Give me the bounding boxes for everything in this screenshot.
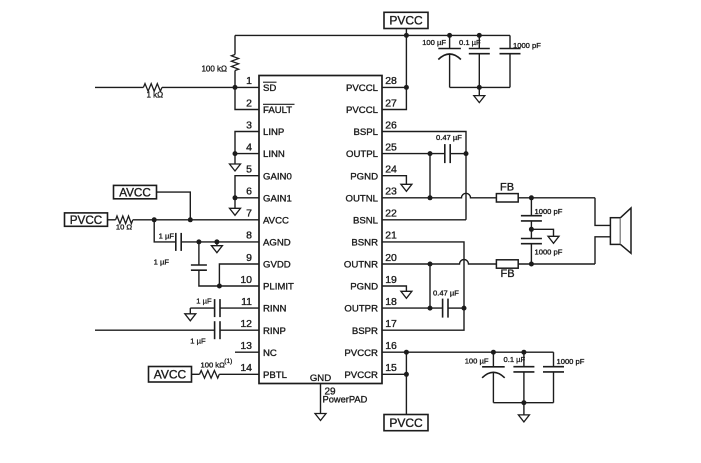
- svg-text:PGND: PGND: [350, 171, 378, 182]
- svg-text:100 µF: 100 µF: [465, 357, 489, 366]
- pin 13 NC stub wire: [235, 351, 259, 353]
- svg-text:PVCCL: PVCCL: [346, 83, 379, 94]
- node dot OUTPL/OUT tie: [428, 151, 433, 156]
- svg-text:BSNL: BSNL: [353, 215, 379, 226]
- capacitor C9 0.47 µF (bootstrap R): [442, 299, 444, 318]
- svg-text:22: 22: [385, 208, 397, 220]
- svg-text:FAULT: FAULT: [263, 105, 292, 116]
- capacitor C14 1000 pF (bottom): [553, 352, 555, 367]
- svg-text:20: 20: [385, 252, 397, 264]
- wire snubber mid to ground: [531, 229, 553, 236]
- node dot output node R: [529, 262, 534, 267]
- svg-text:0.47 µF: 0.47 µF: [436, 133, 462, 142]
- svg-text:24: 24: [385, 164, 397, 176]
- ground snubber: [548, 236, 559, 243]
- wire GAIN0 bracket: [235, 176, 259, 198]
- svg-text:PVCCL: PVCCL: [346, 105, 379, 116]
- svg-text:1000 pF: 1000 pF: [513, 41, 541, 50]
- svg-text:26: 26: [385, 119, 397, 131]
- node dot OUTNR/OUT tie B: [428, 262, 433, 267]
- capacitor C1 100 µF (top): [449, 35, 451, 48]
- speaker LS1 body: [610, 218, 620, 245]
- node dot C2 top: [477, 33, 482, 38]
- node dot SD junction: [233, 85, 238, 90]
- svg-text:23: 23: [385, 186, 397, 198]
- node dot LINN: [233, 151, 238, 156]
- svg-text:FB: FB: [500, 182, 514, 194]
- svg-text:AVCC: AVCC: [154, 368, 187, 382]
- svg-text:0.1 µF: 0.1 µF: [504, 355, 526, 364]
- svg-text:1 kΩ: 1 kΩ: [147, 91, 164, 100]
- node dot top rail / PVCC: [404, 33, 409, 38]
- capacitor C13 0.1 µF (bottom): [523, 352, 525, 367]
- node dot AVCC junction: [188, 217, 193, 222]
- PVCC supply box (top): [384, 12, 428, 28]
- PVCC supply box (bottom): [384, 415, 428, 431]
- ground bottom bank: [523, 403, 525, 415]
- top bank bottom wire: [450, 86, 510, 88]
- svg-text:13: 13: [240, 340, 252, 352]
- node dot C13 top: [521, 350, 526, 355]
- svg-text:6: 6: [246, 186, 252, 198]
- capacitor C12 100 µF (bottom): [492, 352, 494, 367]
- svg-text:AVCC: AVCC: [263, 215, 289, 226]
- ground top bank: [478, 87, 480, 95]
- pin 29 stub wire: [320, 384, 322, 414]
- svg-text:BSPR: BSPR: [352, 326, 378, 337]
- pin 25 OUTPL stub wire: [382, 153, 445, 155]
- op-amp U1 TPA3110 body: [259, 76, 382, 384]
- svg-text:1000 pF: 1000 pF: [557, 357, 585, 366]
- svg-text:PVCCR: PVCCR: [344, 370, 378, 381]
- wire junction to FAULT pin 2: [235, 87, 259, 109]
- wire node L to speaker: [595, 198, 610, 226]
- svg-text:PBTL: PBTL: [263, 370, 288, 381]
- node dot OUTNL/OUT tie: [428, 195, 433, 200]
- wire LINP bracket: [235, 132, 259, 154]
- pin 16 PVCCR wire: [382, 351, 554, 353]
- svg-text:16: 16: [385, 340, 397, 352]
- wire OUT tie B vertical: [429, 264, 431, 308]
- node dot AGND/gnd: [214, 239, 219, 244]
- svg-text:28: 28: [385, 75, 397, 87]
- wire BSNL stub: [382, 219, 466, 221]
- svg-text:7: 7: [246, 208, 252, 220]
- capacitor C4 1 µF (AVCC): [154, 220, 176, 242]
- node dot C1 top: [447, 33, 452, 38]
- capacitor C10 1000 pF (snubber L): [530, 198, 532, 216]
- ground below PowerPAD: [315, 414, 326, 421]
- svg-text:9: 9: [246, 252, 252, 264]
- capacitor C3 1000 pF (top): [509, 35, 511, 48]
- AVCC supply box (PBTL): [149, 367, 192, 383]
- svg-text:PVCCR: PVCCR: [344, 348, 378, 359]
- svg-text:OUTNR: OUTNR: [344, 260, 378, 271]
- wire C8 to BS tie: [450, 153, 466, 155]
- wire PVCC column bottom: [405, 352, 407, 414]
- resistor R2 1 kΩ: [143, 84, 162, 92]
- resistor R3 10 Ω: [108, 219, 116, 221]
- node dot GAIN1: [233, 195, 238, 200]
- wire PVCC column to pin 27: [382, 35, 406, 109]
- svg-text:1 µF: 1 µF: [196, 297, 212, 306]
- svg-text:PLIMIT: PLIMIT: [263, 282, 294, 293]
- AVCC supply box (left): [114, 185, 157, 198]
- svg-text:1000 pF: 1000 pF: [535, 207, 563, 216]
- node dot pin7/C4 branch: [152, 217, 157, 222]
- svg-text:27: 27: [385, 97, 397, 109]
- ferrite bead FB1: [496, 194, 518, 202]
- wire BS tie vertical: [465, 154, 467, 220]
- node dot bottom bank ground: [521, 400, 526, 405]
- svg-text:2: 2: [246, 97, 252, 109]
- ground PGND pin 19: [382, 286, 406, 291]
- svg-text:OUTPR: OUTPR: [344, 304, 378, 315]
- svg-text:100 kΩ: 100 kΩ: [201, 360, 226, 369]
- pin 18 OUTPR stub wire: [382, 307, 443, 309]
- resistor R4 100 kΩ PBTL: [192, 373, 200, 375]
- ground LINN: [234, 154, 236, 164]
- pin 28 stub wire: [382, 86, 406, 88]
- wire FB1 to node: [518, 197, 595, 199]
- svg-text:1 µF: 1 µF: [159, 232, 175, 241]
- resistor R1 100 kΩ pull-up: [234, 35, 236, 54]
- svg-text:PVCC: PVCC: [389, 14, 423, 28]
- svg-text:1000 pF: 1000 pF: [535, 248, 563, 257]
- svg-text:12: 12: [240, 318, 252, 330]
- pin 15 stub wire: [382, 373, 406, 375]
- svg-text:AVCC: AVCC: [119, 186, 151, 199]
- node dot OUTPR/OUT tie B: [428, 306, 433, 311]
- wire OUTNR to FB2 with hop: [382, 260, 496, 265]
- ground PGND pin 24: [382, 176, 406, 185]
- svg-text:RINN: RINN: [263, 304, 287, 315]
- svg-text:0.1 µF: 0.1 µF: [459, 38, 481, 47]
- svg-text:18: 18: [385, 296, 397, 308]
- svg-text:17: 17: [385, 318, 397, 330]
- svg-text:5: 5: [246, 164, 252, 176]
- svg-text:1 µF: 1 µF: [190, 337, 206, 346]
- svg-text:25: 25: [385, 141, 397, 153]
- wire OUTNL to FB1 with hop: [382, 193, 496, 198]
- input wire to SD: [95, 86, 143, 88]
- wire GVDD to PLIMIT: [219, 264, 259, 286]
- svg-text:GAIN1: GAIN1: [263, 193, 292, 204]
- svg-text:PGND: PGND: [350, 282, 378, 293]
- svg-text:11: 11: [241, 296, 252, 308]
- svg-text:GAIN0: GAIN0: [263, 171, 292, 182]
- svg-text:FB: FB: [500, 268, 514, 280]
- svg-text:10 Ω: 10 Ω: [116, 223, 133, 232]
- node dot BS tie B / C9: [462, 306, 467, 311]
- svg-text:3: 3: [246, 119, 252, 131]
- capacitor C11 1000 pF (snubber R): [530, 229, 532, 238]
- PVCC supply box (left): [65, 213, 108, 226]
- svg-text:19: 19: [385, 274, 397, 286]
- svg-text:21: 21: [385, 230, 397, 242]
- svg-text:10: 10: [240, 274, 252, 286]
- svg-text:8: 8: [246, 230, 252, 242]
- wire C9 to BS tie B: [448, 307, 464, 309]
- wire BSPL to BS tie: [382, 132, 466, 154]
- svg-text:100 µF: 100 µF: [422, 38, 446, 47]
- svg-text:OUTNL: OUTNL: [345, 193, 378, 204]
- svg-text:BSPL: BSPL: [353, 127, 378, 138]
- node dot C12 top: [491, 350, 496, 355]
- svg-text:SD: SD: [263, 83, 276, 94]
- speaker LS1 cone: [621, 208, 632, 253]
- svg-text:4: 4: [246, 141, 252, 153]
- capacitor C6 1 µF (RINN): [190, 307, 214, 309]
- node dot pin16/PVCC column: [404, 350, 409, 355]
- pin 1 stub wire: [235, 86, 259, 88]
- wire BS tie B to BSPR: [382, 308, 464, 330]
- svg-text:BSNR: BSNR: [351, 238, 378, 249]
- wire BSNR to BS tie B: [382, 242, 464, 308]
- wire FB2 to node: [518, 263, 595, 265]
- svg-text:100 kΩ: 100 kΩ: [201, 65, 227, 74]
- node dot pin15/PVCC column: [404, 372, 409, 377]
- bottom bank bottom wire: [493, 402, 553, 404]
- ground AGND: [216, 242, 218, 246]
- svg-text:14: 14: [240, 362, 252, 374]
- svg-text:(1): (1): [224, 358, 232, 365]
- ferrite bead FB2: [496, 260, 518, 268]
- node dot top bank ground: [477, 85, 482, 90]
- svg-text:PVCC: PVCC: [389, 416, 423, 430]
- node dot output node L: [529, 195, 534, 200]
- svg-text:LINN: LINN: [263, 149, 285, 160]
- capacitor C7 1 µF (RINP): [214, 321, 216, 339]
- capacitor C2 0.1 µF (top): [478, 35, 480, 48]
- svg-text:LINP: LINP: [263, 127, 284, 138]
- node dot pin 28 / PVCC column: [404, 85, 409, 90]
- node dot PLIMIT junction: [217, 284, 222, 289]
- svg-text:1 µF: 1 µF: [154, 258, 170, 267]
- svg-text:15: 15: [385, 362, 397, 374]
- svg-text:OUTPL: OUTPL: [346, 149, 379, 160]
- node dot AGND/C5: [196, 239, 201, 244]
- node dot BS tie / C8: [464, 151, 469, 156]
- svg-text:PVCC: PVCC: [70, 214, 102, 227]
- svg-text:RINP: RINP: [263, 326, 286, 337]
- svg-text:PowerPAD: PowerPAD: [323, 395, 368, 405]
- top rail wire: [235, 34, 510, 36]
- capacitor C8 0.47 µF (bootstrap L): [444, 144, 446, 163]
- svg-text:0.47 µF: 0.47 µF: [433, 289, 459, 298]
- ground GAIN1: [234, 198, 236, 209]
- node dot snubber mid: [529, 227, 534, 232]
- wire 10 ohm to pin 7 AVCC: [133, 219, 259, 221]
- svg-text:1: 1: [246, 75, 252, 87]
- svg-text:AGND: AGND: [263, 238, 291, 249]
- wire node R to speaker: [595, 237, 610, 264]
- svg-text:NC: NC: [263, 348, 277, 359]
- svg-text:GVDD: GVDD: [263, 260, 291, 271]
- wire PVCC box to rail: [405, 29, 407, 36]
- input wire to RINP: [95, 329, 215, 331]
- wire OUT tie vertical (L): [429, 154, 431, 198]
- capacitor C5 1 µF (GVDD): [198, 242, 200, 265]
- svg-text:GND: GND: [310, 373, 331, 384]
- wire AVCC to pin 7 rail: [157, 192, 191, 220]
- ground RINN: [189, 308, 191, 314]
